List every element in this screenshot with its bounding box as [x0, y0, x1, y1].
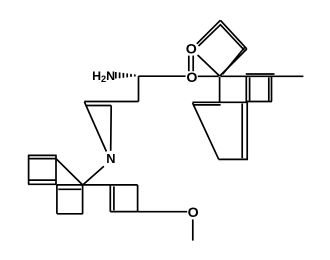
bond to methoxy O: [138, 211, 188, 213]
double bond companion above square ring top: [246, 73, 275, 75]
square ring right side inner companion: [268, 77, 270, 100]
left square ring: left side: [28, 155, 30, 184]
bond C3 horizontal (alkene top line): [84, 101, 138, 103]
diamond ring edge Cr-C1 (lower-right, inner companion): [223, 48, 245, 75]
diamond ring edge Ct-Cr (upper-right, outer): [220, 20, 246, 49]
left square ring: right side: [55, 156, 57, 185]
bond C4=N diagonal to N: [84, 102, 106, 152]
atom label O (carbonyl oxygen): [186, 41, 197, 57]
hashed wedge bond N-C2 (stereo bond): [116, 72, 135, 79]
middle square ring: top edge: [57, 184, 83, 186]
diamond ring edge O-Ct (upper-left, inner companion): [199, 25, 221, 46]
bond C2-C3 (vertical from stereocenter): [138, 76, 140, 101]
svg-text:N: N: [106, 151, 115, 166]
bond C5-N near vertical to N: [110, 106, 113, 151]
svg-text:H2N: H2N: [92, 69, 115, 84]
square ring bottom edge: [246, 101, 272, 103]
svg-text:O: O: [186, 41, 197, 57]
middle square ring: left side: [56, 185, 58, 214]
right square ring: left side inner companion: [113, 186, 115, 210]
square ring right side outer: [271, 76, 273, 101]
atom label H2N (amine nitrogen): [92, 69, 115, 84]
bond C1 vertical down to fused ring: [219, 77, 221, 102]
left square ring: bottom edge outer: [28, 183, 56, 185]
trapezoid ring top edge companion: [194, 104, 221, 106]
trapezoid ring right side inner companion: [241, 104, 243, 159]
middle square ring: bottom edge: [57, 213, 83, 215]
diamond ring edge Ct-Cr (upper-right, inner companion): [220, 24, 244, 50]
bond C6 horizontal to right square: [83, 184, 111, 186]
trapezoid ring top edge: [192, 101, 247, 103]
right square ring: top edge: [110, 184, 137, 186]
svg-text:O: O: [188, 205, 199, 221]
left square ring: top edge inner companion: [29, 158, 56, 160]
diamond ring edge O-Ct (upper-left, outer): [197, 20, 221, 44]
right square ring: bottom edge: [110, 211, 137, 213]
middle square ring: right side: [82, 185, 84, 214]
trapezoid ring left diagonal: [193, 103, 219, 159]
square ring left side inner companion: [249, 77, 251, 100]
bond C2-O ester (horizontal to O): [139, 75, 186, 77]
diamond ring edge O-C1 (lower-left, single): [198, 55, 220, 76]
trapezoid ring bottom edge: [219, 158, 249, 160]
right square ring: left side outer: [109, 185, 111, 212]
double bond O=O vertical (carbonyl): [189, 56, 193, 72]
bond O-CH3 (methyl below O): [192, 219, 194, 240]
bond C1 long horizontal to the right (through square ring top): [221, 75, 304, 77]
trapezoid ring right side outer: [246, 102, 248, 159]
right square ring: right side: [137, 185, 139, 212]
svg-text:O: O: [186, 70, 197, 86]
middle square ring: top edge inner companion: [58, 188, 81, 190]
bond diagonal left square to vertex C6: [56, 159, 82, 185]
double bond companion below alkene: [86, 105, 111, 107]
left square ring: bottom edge inner companion: [29, 179, 56, 181]
atom label O (methoxy oxygen): [188, 205, 199, 221]
left square ring: top edge outer: [28, 154, 57, 156]
square ring (upper right benzo): left side outer: [245, 76, 247, 101]
bond N-C6 (from N down-left to bottom cluster vertex): [83, 166, 104, 185]
bond O-C1 (ester O to diamond bottom vertex): [198, 75, 219, 77]
atom label N (imine nitrogen): [106, 151, 115, 166]
atom label O (ester oxygen): [186, 70, 197, 86]
diamond ring edge Cr-C1 (lower-right, outer): [220, 49, 247, 76]
